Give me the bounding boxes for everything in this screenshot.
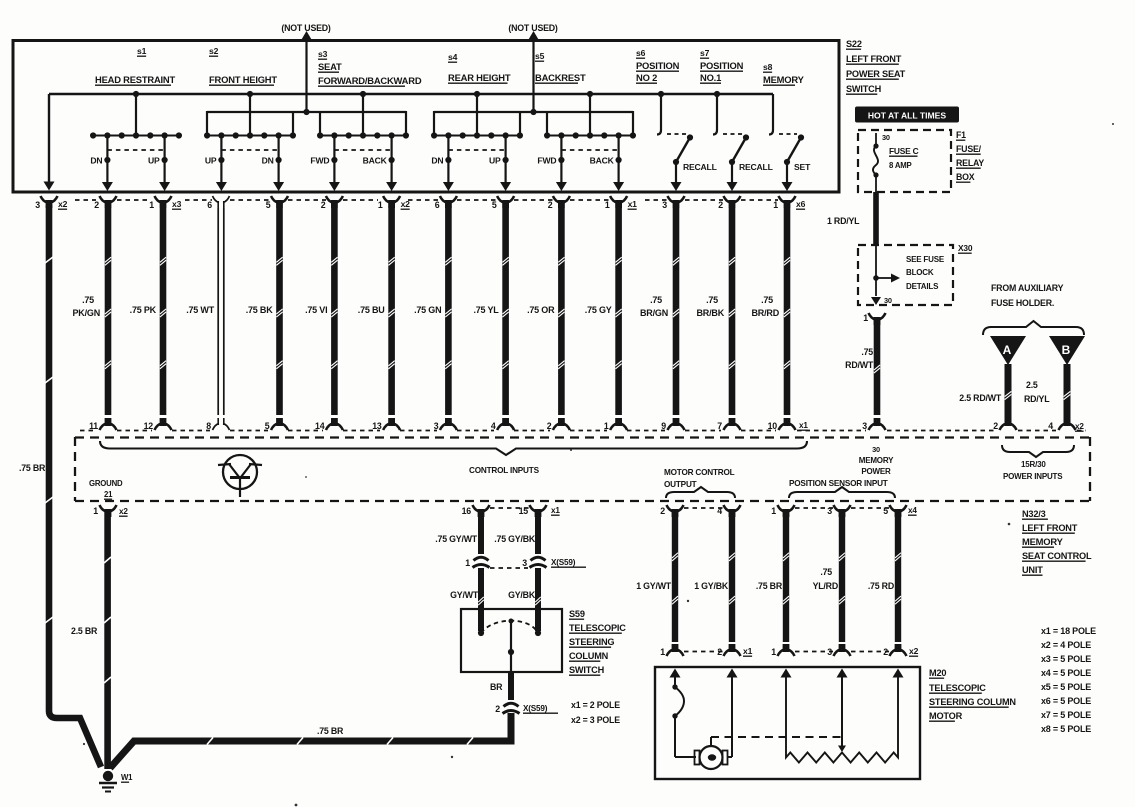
svg-text:1 RD/YL: 1 RD/YL: [827, 216, 860, 226]
svg-text:x3 = 5 POLE: x3 = 5 POLE: [1041, 654, 1091, 664]
svg-text:4: 4: [491, 421, 496, 431]
svg-text:x2 = 4 POLE: x2 = 4 POLE: [1041, 640, 1091, 650]
svg-text:x6: x6: [796, 199, 806, 209]
svg-text:.75 VI: .75 VI: [305, 305, 327, 315]
svg-text:s1: s1: [137, 46, 147, 56]
wire .75 RD: [895, 512, 901, 642]
wire pin3 ground feed drop: [48, 94, 50, 184]
switch group s3 contacts: [362, 94, 364, 136]
fuse C element: [873, 143, 878, 148]
connector pin 13 control unit: [383, 424, 390, 431]
mechanical link s5: [561, 149, 618, 151]
svg-text:5: 5: [265, 421, 270, 431]
svg-text:2.5 BR: 2.5 BR: [71, 626, 98, 636]
svg-text:FWD: FWD: [537, 156, 556, 166]
wire 1 GY/WT: [672, 512, 678, 642]
potentiometer track: [786, 676, 898, 763]
switch s3 left pole FWD: [333, 136, 335, 184]
svg-text:2: 2: [94, 200, 99, 210]
connector pin 5 at x=279.5 below S22: [271, 196, 278, 203]
svg-text:BR/BK: BR/BK: [697, 308, 725, 318]
ground W1: [103, 771, 113, 781]
svg-text:BR: BR: [490, 682, 503, 692]
svg-text:30: 30: [872, 445, 880, 454]
svg-text:DN: DN: [90, 156, 102, 166]
svg-text:.75: .75: [82, 295, 94, 305]
svg-text:.75 BR: .75 BR: [756, 581, 783, 591]
switch s5 right pole BACK: [617, 136, 619, 184]
connector pin 6 at x=448.4 below S22: [440, 196, 447, 203]
svg-text:BACK: BACK: [590, 156, 615, 166]
svg-text:6: 6: [207, 200, 212, 210]
svg-text:2: 2: [548, 200, 553, 210]
connector pin 5 control unit: [271, 424, 278, 431]
wire 1 GY/BK: [729, 512, 735, 642]
svg-text:10: 10: [768, 421, 778, 431]
connector pin 3 control unit: [440, 424, 447, 431]
svg-text:1: 1: [660, 647, 665, 657]
connector link dashes below S22: [75, 199, 96, 201]
svg-text:13: 13: [372, 421, 382, 431]
motor to pin 4 wire: [728, 756, 733, 758]
svg-text:s6: s6: [636, 48, 646, 58]
svg-text:.75: .75: [861, 347, 873, 357]
svg-text:14: 14: [315, 421, 325, 431]
svg-text:15R/30: 15R/30: [1021, 460, 1046, 469]
svg-text:30: 30: [882, 133, 890, 142]
connector pin 1 at motor: [778, 650, 785, 657]
banner HOT AT ALL TIMES: [855, 107, 959, 123]
svg-text:1: 1: [771, 647, 776, 657]
svg-text:HEAD RESTRAINT: HEAD RESTRAINT: [95, 74, 175, 85]
svg-text:1 GY/BK: 1 GY/BK: [694, 581, 729, 591]
svg-text:s2: s2: [209, 46, 219, 56]
svg-text:3: 3: [662, 200, 667, 210]
svg-text:x2: x2: [1075, 422, 1084, 431]
connector pin 9 control unit: [668, 424, 675, 431]
svg-text:9: 9: [661, 421, 666, 431]
connector pin 1 control unit: [610, 424, 617, 431]
wiper wire: [841, 676, 843, 747]
svg-text:.75: .75: [820, 567, 832, 577]
svg-text:2: 2: [547, 421, 552, 431]
svg-text:x4 = 5 POLE: x4 = 5 POLE: [1041, 668, 1091, 678]
svg-text:1: 1: [465, 558, 470, 568]
connector pin 3 at motor: [834, 650, 841, 657]
svg-text:GY/BK: GY/BK: [508, 590, 536, 600]
terminal 30 exit: [871, 297, 881, 305]
power source triangle A: [990, 336, 1026, 365]
switch s8 pushbutton SET: [772, 94, 774, 130]
svg-text:1 GY/WT: 1 GY/WT: [636, 581, 672, 591]
connector pin 5 at x=505.6 below S22: [497, 196, 504, 203]
connector pin 2 at x=561.4 below S22: [553, 196, 560, 203]
svg-text:x6 = 5 POLE: x6 = 5 POLE: [1041, 696, 1091, 706]
svg-text:MOTOR CONTROL: MOTOR CONTROL: [664, 468, 735, 477]
svg-text:x4: x4: [908, 506, 917, 515]
svg-text:DN: DN: [262, 156, 274, 166]
svg-text:.75 PK: .75 PK: [130, 305, 157, 315]
junction node not-used left: [303, 109, 309, 115]
wire main feed bus inside S22: [49, 93, 773, 95]
brace power inputs: [1002, 445, 1074, 457]
junction node not-used right: [530, 109, 536, 115]
switch group s5 contacts: [589, 94, 591, 136]
switch s4 right pole UP: [505, 136, 507, 184]
mechanical link s2: [221, 149, 278, 151]
svg-text:BACKREST: BACKREST: [535, 72, 586, 83]
svg-text:X30: X30: [958, 243, 973, 253]
wire 2.5 RD/YL: [1064, 364, 1071, 424]
wire .75 WT: [217, 208, 219, 415]
switch S59 box: [461, 609, 562, 672]
switch group s1 contacts: [135, 94, 137, 136]
svg-text:HOT AT ALL TIMES: HOT AT ALL TIMES: [868, 111, 947, 121]
svg-text:NO.1: NO.1: [700, 72, 721, 83]
svg-text:.75 YL: .75 YL: [473, 305, 499, 315]
link dash X(S59): [490, 567, 528, 569]
svg-text:M20: M20: [929, 668, 946, 678]
svg-text:8 AMP: 8 AMP: [889, 161, 912, 170]
svg-text:3: 3: [522, 558, 527, 568]
svg-text:TELESCOPIC: TELESCOPIC: [569, 623, 626, 633]
switch s7 pushbutton RECALL: [716, 94, 718, 130]
svg-text:.75 GY/WT: .75 GY/WT: [435, 534, 478, 544]
power source triangle B: [1049, 336, 1085, 365]
connector pin 15: [530, 505, 537, 512]
S59 wiper wire: [510, 621, 512, 672]
svg-text:x1: x1: [799, 421, 808, 430]
arrow to fuse details note: [876, 277, 892, 279]
svg-text:2.5 RD/WT: 2.5 RD/WT: [959, 393, 1002, 403]
svg-text:2: 2: [660, 506, 665, 516]
svg-text:(NOT USED): (NOT USED): [281, 23, 331, 33]
wire GY/BK: [535, 568, 541, 631]
switch s3 right pole BACK: [391, 136, 393, 184]
wire .75 YL: [502, 208, 509, 415]
svg-text:OUTPUT: OUTPUT: [664, 480, 697, 489]
svg-text:2.5: 2.5: [1026, 380, 1038, 390]
svg-text:YL/RD: YL/RD: [813, 581, 838, 591]
brace position sensor input: [789, 487, 895, 498]
wire not-used feed left with up arrow: [305, 40, 307, 112]
brace motor control output: [666, 487, 735, 498]
brace control inputs group: [100, 441, 807, 455]
svg-text:x1 = 18 POLE: x1 = 18 POLE: [1041, 626, 1096, 636]
connector pin 2 at motor: [890, 650, 897, 657]
svg-text:FROM AUXILIARY: FROM AUXILIARY: [991, 283, 1064, 293]
svg-text:4: 4: [1048, 421, 1053, 431]
svg-text:1: 1: [93, 506, 98, 516]
svg-text:STEERING: STEERING: [569, 637, 614, 647]
svg-text:11: 11: [89, 421, 98, 431]
connector pin 2 at x=732 below S22: [724, 196, 731, 203]
svg-text:.75 GN: .75 GN: [414, 305, 441, 315]
svg-text:x3: x3: [172, 199, 182, 209]
wire .75 GY/WT: [478, 512, 484, 554]
connector pin 3: [834, 505, 841, 512]
svg-text:x8 = 5 POLE: x8 = 5 POLE: [1041, 724, 1091, 734]
svg-text:x1: x1: [551, 506, 560, 515]
wire .75 BR/RD: [784, 208, 791, 415]
svg-text:RD/YL: RD/YL: [1024, 394, 1050, 404]
svg-text:RD/WT: RD/WT: [845, 360, 874, 370]
switch s5 left pole FWD: [560, 136, 562, 184]
electronic control symbol: [223, 455, 257, 489]
svg-text:SEE FUSE: SEE FUSE: [906, 255, 945, 264]
scan specks: [295, 804, 298, 807]
connector pin 10 control unit: [779, 424, 786, 431]
svg-text:x2: x2: [58, 199, 68, 209]
wire inside X30: [875, 245, 877, 296]
switch s1 left pole DN: [106, 136, 108, 184]
link dash pins 16-15: [490, 507, 529, 509]
svg-text:x1: x1: [628, 199, 638, 209]
inline connector X(S59) pin 1: [474, 557, 489, 560]
connector pin 4 power input: [1059, 424, 1066, 431]
svg-text:MOTOR: MOTOR: [929, 711, 963, 721]
mechanical coupling dashed: [710, 737, 712, 746]
switch group s2 contacts: [249, 94, 251, 136]
svg-text:GY/WT: GY/WT: [450, 590, 479, 600]
wire outer-contact bus groups s2-s3: [207, 111, 406, 113]
svg-text:s8: s8: [763, 62, 773, 72]
svg-text:DN: DN: [431, 156, 443, 166]
svg-text:6: 6: [435, 200, 440, 210]
wire .75 BR left ground feed: [49, 205, 101, 767]
connector pin 12 control unit: [155, 424, 162, 431]
connector pin 16: [473, 505, 480, 512]
connector pin 2: [667, 505, 674, 512]
connector pin 2 at motor: [724, 650, 731, 657]
svg-text:5: 5: [492, 200, 497, 210]
wire 1 RD/YL: [873, 192, 879, 245]
svg-text:3: 3: [434, 421, 439, 431]
svg-text:COLUMN: COLUMN: [569, 651, 609, 661]
svg-text:s4: s4: [448, 52, 458, 62]
svg-text:POWER SEAT: POWER SEAT: [846, 69, 906, 79]
wire BR: [508, 672, 514, 700]
wire .75 YL/RD: [839, 512, 845, 642]
svg-text:FORWARD/BACKWARD: FORWARD/BACKWARD: [318, 75, 422, 86]
svg-text:POSITION: POSITION: [700, 60, 744, 71]
svg-text:x7 = 5 POLE: x7 = 5 POLE: [1041, 710, 1091, 720]
svg-text:(NOT USED): (NOT USED): [508, 23, 558, 33]
connector pin 2 at x=334.4 below S22: [326, 196, 333, 203]
svg-text:21: 21: [104, 490, 113, 499]
svg-text:1: 1: [604, 421, 609, 431]
svg-text:x5 = 5 POLE: x5 = 5 POLE: [1041, 682, 1091, 692]
svg-text:GROUND: GROUND: [89, 479, 123, 488]
svg-text:MEMORY: MEMORY: [763, 74, 805, 85]
wire outer-contact bus groups s4-s5: [434, 111, 633, 113]
S22 box bottom edge reinforced: [13, 191, 839, 194]
switch s2 right pole DN: [278, 136, 280, 184]
svg-text:RECALL: RECALL: [683, 162, 717, 172]
svg-text:FUSE HOLDER.: FUSE HOLDER.: [991, 298, 1054, 308]
connector pin 3 memory power: [869, 424, 876, 431]
connector pin 8 control unit: [213, 424, 220, 431]
svg-text:X(S59): X(S59): [523, 704, 548, 713]
svg-text:B: B: [1062, 343, 1071, 357]
svg-text:16: 16: [462, 506, 472, 516]
link dashes motor connector: [684, 651, 723, 653]
svg-text:1: 1: [773, 200, 778, 210]
svg-text:.75 GY: .75 GY: [585, 305, 612, 315]
svg-text:POSITION: POSITION: [636, 60, 680, 71]
svg-text:RELAY: RELAY: [956, 158, 984, 168]
link dashes below band pins: [684, 507, 723, 509]
connector pin 3 at x=676 below S22: [668, 196, 675, 203]
svg-text:BOX: BOX: [956, 172, 975, 182]
svg-text:.75 OR: .75 OR: [527, 305, 555, 315]
svg-text:2: 2: [495, 704, 500, 714]
svg-text:POWER: POWER: [861, 467, 891, 476]
wire .75 BU: [388, 208, 395, 415]
wire .75 GN: [445, 208, 452, 415]
svg-text:POSITION SENSOR INPUT: POSITION SENSOR INPUT: [789, 479, 888, 488]
connector link dashes at control unit top: [80, 430, 97, 432]
svg-text:1: 1: [149, 200, 154, 210]
svg-text:PK/GN: PK/GN: [72, 308, 100, 318]
connector pin 1 at x=618.6 below S22: [610, 196, 617, 203]
svg-text:N32/3: N32/3: [1022, 509, 1046, 519]
svg-text:UNIT: UNIT: [1022, 565, 1043, 575]
svg-text:FRONT HEIGHT: FRONT HEIGHT: [209, 74, 277, 85]
wire not-used feed right with up arrow: [532, 40, 534, 112]
svg-text:SWITCH: SWITCH: [846, 84, 882, 94]
svg-text:POWER INPUTS: POWER INPUTS: [1003, 472, 1063, 481]
svg-text:8: 8: [206, 421, 211, 431]
mechanical link s4: [448, 149, 505, 151]
connector pin 14 control unit: [326, 424, 333, 431]
svg-text:x1 = 2 POLE: x1 = 2 POLE: [571, 700, 620, 710]
svg-text:BACK: BACK: [363, 156, 388, 166]
svg-text:7: 7: [717, 421, 722, 431]
motor armature: [700, 746, 723, 769]
svg-text:s7: s7: [700, 48, 710, 58]
svg-text:FUSE C: FUSE C: [889, 146, 919, 156]
svg-text:.75 BR: .75 BR: [19, 463, 46, 473]
svg-text:SEAT: SEAT: [318, 61, 342, 72]
svg-text:.75: .75: [706, 295, 718, 305]
svg-text:LEFT FRONT: LEFT FRONT: [846, 54, 902, 64]
switch box S22 outline: [13, 41, 839, 193]
control unit N32/3 dashed outline: [75, 436, 1090, 438]
switch s6 pushbutton RECALL: [660, 94, 662, 130]
connector pin 2 at x=108 below S22: [100, 196, 107, 203]
wire .75 RD/WT: [874, 320, 881, 415]
mechanical link s3: [334, 149, 391, 151]
svg-text:s3: s3: [318, 49, 328, 59]
wire .75 VI: [331, 208, 338, 415]
svg-text:1: 1: [378, 200, 383, 210]
connector pin 4: [724, 505, 731, 512]
svg-text:STEERING COLUMN: STEERING COLUMN: [929, 697, 1016, 707]
brace over A and B: [983, 321, 1084, 335]
svg-text:.75 WT: .75 WT: [186, 305, 215, 315]
connector pin 2 control unit: [553, 424, 560, 431]
wire .75 OR: [558, 208, 565, 415]
svg-text:2: 2: [718, 200, 723, 210]
svg-text:S22: S22: [846, 39, 862, 49]
wire 2.5 BR: [104, 512, 111, 769]
S59 contacts: [478, 630, 484, 636]
fuse block X30 dashed outline: [858, 245, 953, 305]
brush branch left: [674, 676, 676, 687]
connector pin 1: [778, 505, 785, 512]
svg-text:X(S59): X(S59): [551, 558, 576, 567]
wire 2.5 RD/WT: [1005, 364, 1012, 424]
svg-text:UP: UP: [489, 156, 501, 166]
switch s4 left pole DN: [447, 136, 449, 184]
svg-text:s5: s5: [535, 51, 545, 61]
svg-text:DETAILS: DETAILS: [906, 282, 939, 291]
svg-text:.75 BU: .75 BU: [358, 305, 385, 315]
wire .75 BR bottom run: [110, 713, 511, 768]
switch group s4 contacts: [476, 94, 478, 136]
svg-text:TELESCOPIC: TELESCOPIC: [929, 683, 986, 693]
connector pin 1 at x=391.6 below S22: [383, 196, 390, 203]
svg-text:FUSE/: FUSE/: [956, 144, 982, 154]
svg-text:2: 2: [321, 200, 326, 210]
svg-text:RECALL: RECALL: [739, 162, 773, 172]
mechanical link s1: [107, 149, 164, 151]
svg-text:SET: SET: [794, 162, 811, 172]
inline connector X(S59) pin 2: [504, 703, 519, 706]
svg-text:x2 = 3 POLE: x2 = 3 POLE: [571, 715, 620, 725]
entry arrows: [670, 669, 681, 678]
connector pin 3 at x=49 below S22: [41, 196, 48, 203]
connector pin 5: [890, 505, 897, 512]
svg-text:1: 1: [771, 506, 776, 516]
svg-text:3: 3: [35, 200, 40, 210]
svg-text:SWITCH: SWITCH: [569, 665, 605, 675]
fuse box F1 dashed outline: [858, 130, 951, 192]
connector pin 1 at x=163 below S22: [155, 196, 162, 203]
svg-text:BLOCK: BLOCK: [906, 268, 934, 277]
connector pin 1 at x=787 below S22: [779, 196, 786, 203]
wire .75 PK/GN: [105, 208, 112, 415]
connector pin 1 at motor: [667, 650, 674, 657]
svg-text:3: 3: [862, 421, 867, 431]
svg-text:F1: F1: [956, 130, 966, 140]
svg-text:NO 2: NO 2: [636, 72, 657, 83]
svg-text:CONTROL INPUTS: CONTROL INPUTS: [469, 466, 540, 475]
svg-text:.75 GY/BK: .75 GY/BK: [494, 534, 536, 544]
connector pin 1 ground output: [100, 505, 107, 512]
svg-text:REAR HEIGHT: REAR HEIGHT: [448, 72, 511, 83]
svg-text:x2: x2: [119, 507, 128, 516]
connector pin 6 at x=221 below S22: [213, 196, 220, 203]
wire .75 BR: [783, 512, 789, 642]
svg-text:5: 5: [266, 200, 271, 210]
svg-text:FWD: FWD: [310, 156, 329, 166]
switch s1 right pole UP: [164, 136, 166, 184]
svg-text:30: 30: [884, 296, 892, 305]
connector pin 7 control unit: [724, 424, 731, 431]
svg-text:x2: x2: [909, 646, 919, 656]
svg-text:x1: x1: [743, 646, 753, 656]
wire GY/WT: [478, 568, 484, 631]
connector pin 2 power input: [1000, 424, 1007, 431]
svg-text:.75 BK: .75 BK: [246, 305, 274, 315]
svg-text:LEFT FRONT: LEFT FRONT: [1022, 523, 1078, 533]
svg-text:MEMORY: MEMORY: [1022, 536, 1064, 547]
svg-text:UP: UP: [205, 156, 217, 166]
svg-text:.75 RD: .75 RD: [868, 581, 894, 591]
wire .75 GY: [615, 208, 622, 415]
